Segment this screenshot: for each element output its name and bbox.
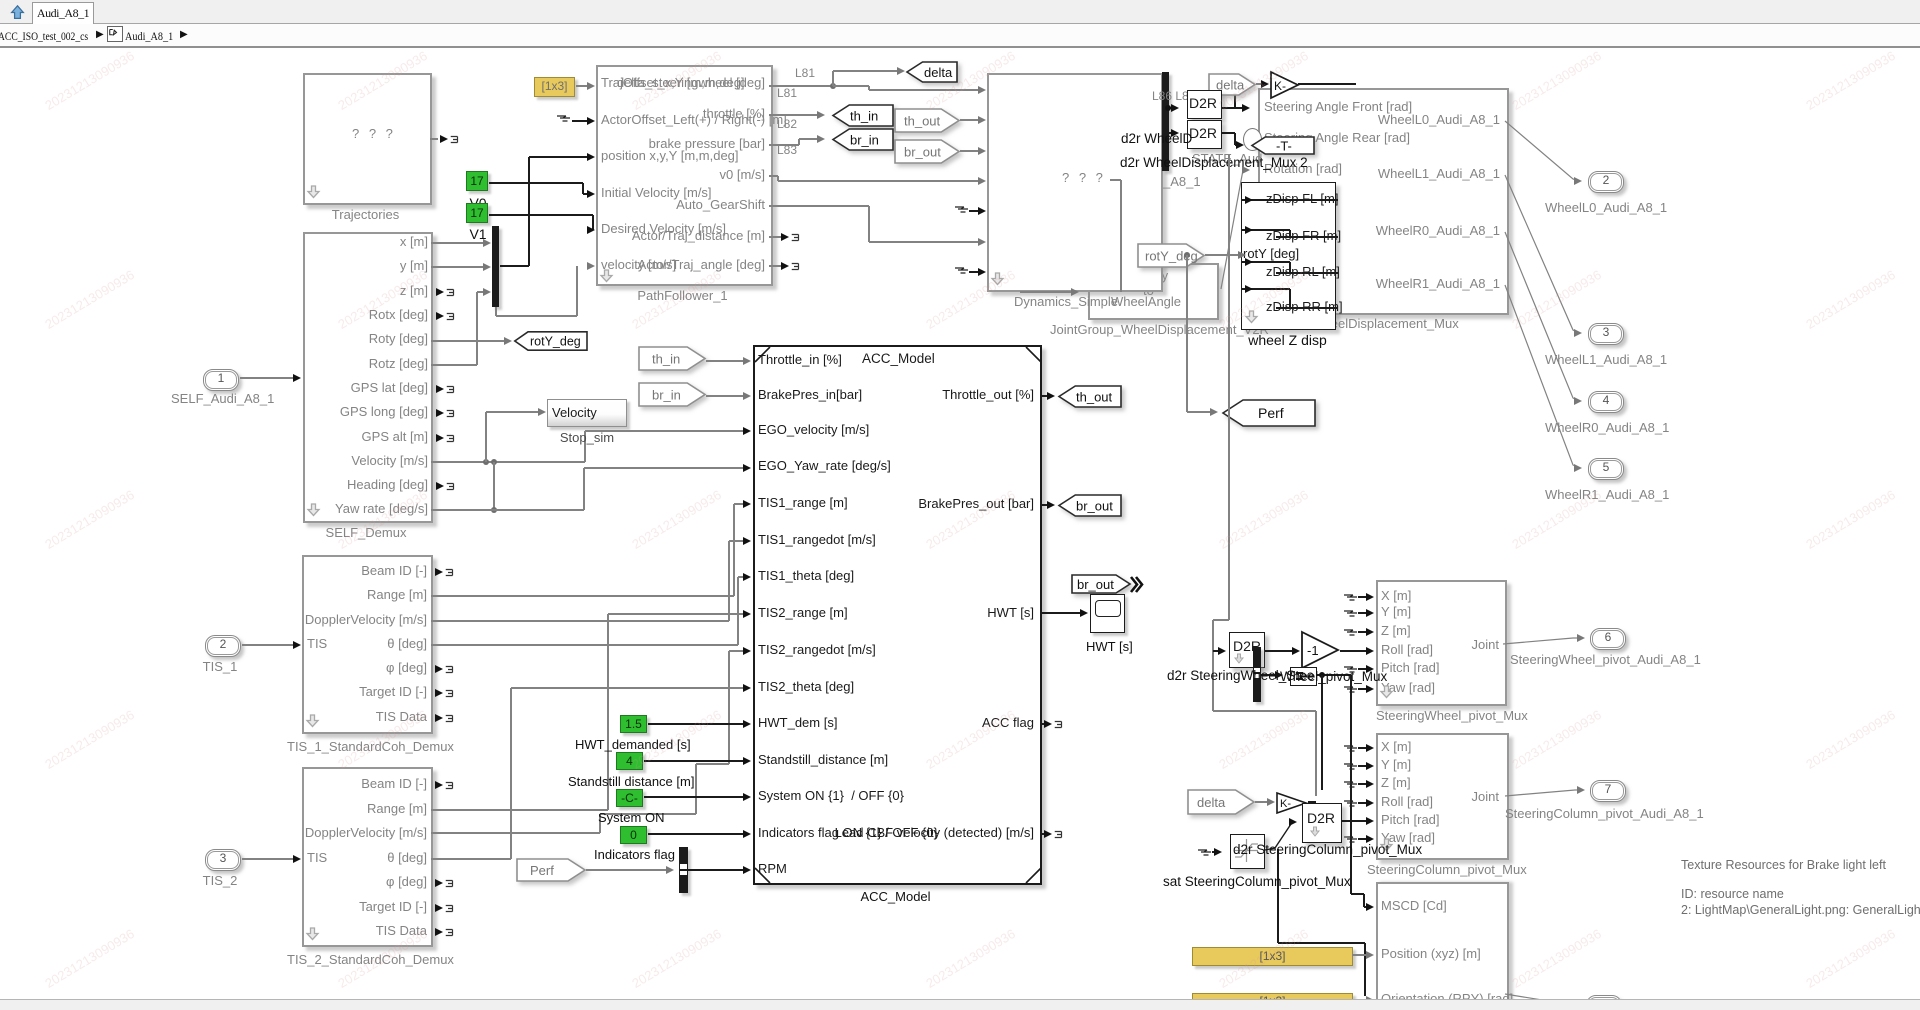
- from tag delta (top): [1208, 73, 1256, 96]
- label V0: [462, 195, 494, 211]
- home icon: [10, 5, 25, 20]
- terminator TIS1 Beam ID: [435, 568, 443, 576]
- wire V1 mux to position: [500, 265, 529, 266]
- goto tag rotY_deg: [514, 331, 588, 351]
- block D2R 1 (wheel): [1187, 90, 1222, 119]
- svg-text:delta: delta: [924, 65, 953, 80]
- block SELF_Demux: [303, 232, 433, 523]
- wire TIS2 DopplerVelocity to TIS2_rangedot: [431, 832, 600, 833]
- terminator GPS lat [deg]: [436, 385, 444, 393]
- port circle behind -T-: [1243, 128, 1262, 151]
- constant V0 value 17: [466, 171, 488, 191]
- wire K- output: [1298, 83, 1356, 84]
- subtract block: [1290, 667, 1317, 686]
- block ACC_Model: [753, 345, 1042, 885]
- wire Perf to selector: [586, 869, 667, 870]
- wire delta to K gain: [1256, 83, 1262, 84]
- wire into D2R: [1213, 650, 1219, 651]
- block wheel Z disp: [1241, 182, 1336, 330]
- wire Yaw rate to EGO_Yaw_rate: [431, 509, 584, 510]
- block Stop_sim Velocity: [547, 399, 627, 427]
- wire STATE to D2R 1: [1169, 107, 1172, 108]
- wire 0 to Indicators flag: [648, 833, 744, 834]
- block D2R 2 (wheel): [1187, 120, 1222, 149]
- from tag delta (bottom): [1187, 789, 1255, 815]
- constant [1x3] orientation: [1192, 993, 1353, 1010]
- wire D2R to -1 gain: [1265, 650, 1293, 651]
- goto tag br_out: [1058, 494, 1122, 517]
- block D2R (steering wheel): [1229, 632, 1265, 668]
- terminator Actor/Traj_distance: [769, 236, 781, 237]
- output port 4 WheelR0: [1505, 230, 1587, 404]
- wire brake pressure L83: [769, 144, 799, 145]
- svg-text:Perf: Perf: [530, 863, 554, 878]
- output port 5 WheelR1: [1505, 283, 1587, 471]
- wire TIS_1 to demux: [242, 644, 294, 645]
- block PathFollower_1: [596, 65, 773, 286]
- label d2r SteeringWheel_pivot_Mux: [1167, 668, 1347, 683]
- svg-text:br_out: br_out: [1077, 577, 1114, 592]
- wire Dynamics bottom to JointGroup: [1020, 291, 1072, 292]
- goto tag th_in: [832, 104, 894, 127]
- wire delta to K gain: [1255, 801, 1268, 802]
- grounds SteeringColumn X Y Z Roll Yaw: [1344, 742, 1360, 754]
- active tab Audi_A8_1: [32, 2, 94, 25]
- wire V1 to Desired Velocity: [489, 214, 593, 215]
- constant HWT_demanded 1.5: [620, 715, 647, 733]
- from tag th_in (ACC): [638, 346, 706, 371]
- goto tag br_in: [832, 128, 894, 151]
- terminator TIS2 phi: [435, 879, 443, 887]
- from tag th_out top: [894, 108, 960, 133]
- wire -1 gain to Roll: [1340, 650, 1367, 651]
- from tag Perf (RPM): [516, 858, 586, 882]
- block SteeringColumn_pivot_Mux: [1376, 733, 1509, 860]
- text Texture Resources: [1681, 858, 1886, 872]
- goto tag delta: [906, 61, 958, 83]
- wire selector to RPM: [688, 869, 744, 870]
- wire 1x3 to Position: [1352, 954, 1367, 955]
- wire 4 to Standstill_distance: [644, 760, 744, 761]
- terminator TIS2 Beam ID: [435, 781, 443, 789]
- terminator TIS2 TIS Data: [435, 928, 443, 936]
- wire rotY_deg to wheel Z disp: [1205, 254, 1239, 255]
- svg-text:-1: -1: [1307, 643, 1319, 658]
- from tag br_out top: [894, 139, 960, 164]
- svg-text:K-: K-: [1280, 798, 1291, 810]
- wire TIS2 theta to TIS2_theta: [431, 858, 511, 859]
- wire delta_steeringwheel L81: [769, 85, 833, 86]
- wire HWT to scope: [1040, 612, 1081, 613]
- terminator TIS1 TIS Data: [435, 714, 443, 722]
- wire -C- to System ON: [644, 796, 744, 797]
- ground ActorOffset: [557, 112, 573, 124]
- svg-text:th_in: th_in: [850, 108, 878, 123]
- wire throttle L82: [769, 114, 818, 115]
- selector bar RPM: [679, 847, 688, 893]
- constant Indicators 0: [620, 826, 647, 844]
- terminator Rotx [deg]: [436, 312, 444, 320]
- svg-text:th_out: th_out: [1076, 389, 1113, 404]
- label STATE_Audi: [1192, 151, 1262, 166]
- wire vertical into JointGroup top: [1120, 180, 1121, 292]
- gain -1: [1301, 631, 1340, 669]
- label Wheel_pivot_Mux: [1280, 669, 1420, 684]
- terminator TIS1 Target ID: [435, 689, 443, 697]
- long vertical wire to SteeringWheel D2R: [1228, 155, 1229, 620]
- wire TIS1 DopplerVelocity to TIS1_rangedot: [431, 620, 729, 621]
- terminator GPS long [deg]: [436, 409, 444, 417]
- svg-text:th_in: th_in: [652, 351, 680, 366]
- wire BrakePres_out to br_out goto: [1040, 504, 1048, 505]
- saturation block sat: [1230, 834, 1265, 869]
- wire V0 to Initial Velocity: [489, 182, 583, 183]
- wire 1.5 to HWT_dem: [648, 723, 744, 724]
- block TIS_2_StandardCoh_Demux: [302, 767, 433, 947]
- wire rotY branch down to Perf: [1186, 255, 1187, 412]
- svg-text:th_out: th_out: [904, 113, 941, 128]
- output port 6 SteeringWheel_pivot: [1590, 628, 1626, 650]
- block SteeringWheel_pivot_Mux: [1376, 580, 1507, 706]
- mux STATE bar: [1162, 72, 1169, 171]
- wire K- up join: [1308, 801, 1316, 802]
- junction dots Velocity: [483, 459, 489, 465]
- label d2r WheelDisplacement Mux 2: [1120, 155, 1290, 170]
- terminator Lead CBF velocity: [1040, 833, 1044, 834]
- goto tag -T-: [1251, 136, 1315, 155]
- label L86 L86: [1152, 89, 1195, 103]
- label d2r WheelDisplacement_Mux 2 upper: [1121, 131, 1293, 146]
- wire br_in to BrakePres_in: [706, 395, 744, 396]
- input port 2 TIS_1: [205, 635, 241, 657]
- input port 3 TIS_2: [205, 849, 241, 871]
- ACC_Model corner marks: [753, 345, 1043, 885]
- wire Rotz to V1 mux: [431, 364, 477, 365]
- grounds SteeringWheel X Y Z Pitch Yaw: [1344, 591, 1360, 603]
- terminator ACC flag: [1040, 723, 1044, 724]
- wire Velocity to EGO_velocity: [431, 461, 585, 462]
- wire D2R to Pitch: [1342, 820, 1367, 821]
- wire Roty to rotY_deg goto: [431, 340, 505, 341]
- wire TIS1 theta to TIS1_theta: [431, 644, 738, 645]
- wire TIS1 Range to TIS1_range: [431, 595, 734, 596]
- wire 1x3 to TrajOffset: [576, 85, 588, 86]
- wire D2R1 to Steering Angle Front: [1222, 107, 1243, 108]
- block Dynamics_SimpleWheelAngle: [987, 73, 1163, 292]
- constant [1x3] PathFollower: [534, 77, 575, 97]
- wire v0 to Dynamics: [769, 175, 778, 176]
- from tag rotY_deg (right): [1137, 243, 1205, 268]
- wire subtract out junction: [1317, 674, 1351, 675]
- wire x to V1 mux: [431, 242, 484, 243]
- goto tag Perf: [1222, 399, 1316, 427]
- wire junction down to MSCD: [1350, 675, 1351, 894]
- wire br_out to Dynamics: [960, 150, 979, 151]
- wire SELF_Audi_A8_1 to SELF_Demux: [240, 377, 294, 378]
- wire Velocity branch to Stop_sim: [485, 412, 486, 462]
- terminator TIS2 Target ID: [435, 904, 443, 912]
- ground Dynamics input 5: [955, 203, 971, 215]
- wire to output 7: [1505, 786, 1583, 798]
- constant V1 value 17: [466, 203, 488, 223]
- wire mux bar to subtract: [1261, 674, 1276, 675]
- terminator TIS1 phi: [435, 665, 443, 673]
- terminator Heading [deg]: [436, 482, 444, 490]
- ground into sat: [1198, 846, 1214, 858]
- wire STATE to D2R 2: [1169, 132, 1172, 133]
- label d2r SteeringColumn_pivot_Mux: [1233, 842, 1413, 857]
- mux Wheel_pivot bar: [1253, 647, 1261, 702]
- wire to orientation: [1352, 999, 1367, 1000]
- goto tag th_out: [1058, 385, 1122, 408]
- block D2R (steering column): [1302, 803, 1342, 843]
- svg-text:rotY_deg: rotY_deg: [1145, 248, 1198, 263]
- wire th_in to Throttle_in: [706, 360, 744, 361]
- constant Standstill 4: [616, 752, 643, 770]
- mux V1 bar: [492, 226, 499, 307]
- wire D2R2 to -T-: [1222, 132, 1235, 133]
- terminator Actor/Traj_angle: [769, 265, 781, 266]
- tab bar: [0, 0, 1920, 24]
- wire Velocity branch down: [493, 462, 494, 510]
- output port 7 SteeringColumn_pivot: [1590, 780, 1626, 802]
- wire TIS_2 to demux: [242, 858, 294, 859]
- model icon: [107, 26, 123, 42]
- svg-text:delta: delta: [1197, 795, 1226, 810]
- wire Auto_GearShift to Dynamics: [769, 205, 869, 206]
- block Trajectories: [303, 73, 432, 205]
- wire mux bottom to velocity port: [495, 307, 496, 316]
- diagonal wire to Rotation port: [1218, 168, 1258, 293]
- status bar: [0, 999, 1920, 1010]
- svg-text:br_out: br_out: [1076, 498, 1113, 513]
- from tag br_out (scope): [1071, 574, 1131, 594]
- label sat SteeringColumn_pivot_Mux: [1163, 874, 1343, 889]
- svg-text:br_out: br_out: [904, 144, 941, 159]
- wire Throttle_out to th_out goto: [1040, 395, 1048, 396]
- svg-text:br_in: br_in: [850, 132, 879, 147]
- block WheelDisplacement_Mux: [1258, 88, 1509, 315]
- breadcrumb bar: [0, 24, 1920, 48]
- input port 1 SELF_Audi_A8_1: [203, 369, 239, 391]
- output port 3 WheelL1: [1505, 173, 1587, 336]
- constant [1x3] position: [1192, 947, 1353, 966]
- constant System ON -C-: [616, 789, 643, 807]
- block JointGroup_WheelDisplacement_V2R: [1088, 263, 1219, 320]
- wire to output 6: [1503, 636, 1581, 648]
- from tag br_in (ACC): [638, 382, 706, 407]
- output port 2 WheelL0: [1505, 119, 1587, 185]
- diagonal wire sat to D2R: [1263, 818, 1298, 853]
- terminator Trajectories output: [430, 138, 438, 139]
- terminator GPS alt [m]: [436, 434, 444, 442]
- wire TIS2 Range to TIS2_range: [431, 809, 608, 810]
- ground Dynamics input 7: [955, 264, 971, 276]
- watermarks: [42, 48, 137, 113]
- svg-text:Perf: Perf: [1258, 405, 1284, 421]
- output port 8: [1505, 992, 1575, 1006]
- block MSCD (brake light): [1376, 882, 1509, 1010]
- wire y to V1 mux: [431, 266, 484, 267]
- wire th_out to Dynamics: [960, 119, 979, 120]
- terminator z [m]: [436, 288, 444, 296]
- gain K- (top): [1270, 71, 1300, 99]
- gain K- (bottom): [1276, 792, 1308, 814]
- svg-text:br_in: br_in: [652, 387, 681, 402]
- scope HWT [s]: [1090, 594, 1125, 633]
- block TIS_1_StandardCoh_Demux: [302, 555, 433, 734]
- branch delta to Steering Angle Front: [1234, 84, 1235, 108]
- svg-text:rotY_deg: rotY_deg: [530, 335, 581, 349]
- wire sat branch down: [1277, 849, 1278, 943]
